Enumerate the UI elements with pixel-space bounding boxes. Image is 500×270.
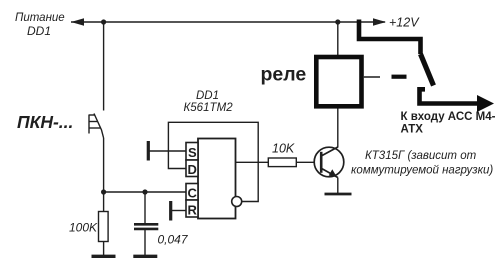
wire 10K to base xyxy=(296,161,314,163)
switch ПКН (push button) xyxy=(89,114,104,139)
svg-text:К561ТМ2: К561ТМ2 xyxy=(184,102,234,114)
pin box S xyxy=(186,143,198,161)
wire node to C input xyxy=(104,191,186,193)
pin box R xyxy=(186,200,198,217)
svg-text:Питание: Питание xyxy=(15,12,65,24)
arrowhead right (+12V) xyxy=(373,18,386,26)
feedback wire loop (Q̄ to D) xyxy=(168,122,258,201)
svg-text:КТ315Г (зависит от: КТ315Г (зависит от xyxy=(365,150,477,162)
ground under capacitor xyxy=(133,255,157,258)
inverter bubble on Q̄ output xyxy=(232,197,242,207)
svg-text:коммутируемой нагрузки): коммутируемой нагрузки) xyxy=(351,165,493,177)
node junction capacitor xyxy=(142,189,147,194)
wire top rail down to relay coil xyxy=(337,22,339,55)
wire collector up to relay xyxy=(337,109,339,148)
thick wire from +12V to contact (hand drawn) xyxy=(359,20,421,55)
svg-text:DD1: DD1 xyxy=(27,24,51,38)
svg-text:АТХ: АТХ xyxy=(401,124,424,136)
pin box D xyxy=(186,160,198,177)
pin box C xyxy=(186,184,198,201)
wire R input xyxy=(172,210,186,212)
wire relay contact common lead xyxy=(364,76,380,78)
node junction left xyxy=(101,189,106,194)
resistor R2 10K xyxy=(268,158,296,167)
IC U1 flip-flop DD1 К561ТМ2 body xyxy=(198,139,236,219)
wire emitter down xyxy=(337,178,339,194)
relay moving contact dash xyxy=(392,75,407,79)
chassis ground at S input xyxy=(147,141,150,161)
node junction top-left xyxy=(101,19,106,24)
wire top horizontal +12V rail xyxy=(71,21,385,23)
wire from switch down to node xyxy=(103,138,105,192)
resistor R1 100K xyxy=(103,192,105,212)
svg-text:C: C xyxy=(188,186,198,201)
svg-text:DD1: DD1 xyxy=(196,90,219,102)
wire S input xyxy=(150,150,187,152)
relay K1 coil box xyxy=(316,57,361,106)
svg-text:реле: реле xyxy=(261,64,307,86)
capacitor C1 0,047 xyxy=(144,192,146,223)
chassis ground at R input xyxy=(169,201,172,221)
svg-text:S: S xyxy=(188,145,197,160)
ground under 100K xyxy=(92,255,116,258)
svg-text:ПКН-...: ПКН-... xyxy=(17,112,73,132)
svg-text:R: R xyxy=(188,203,198,218)
svg-text:10K: 10K xyxy=(272,142,295,156)
transistor Q1 KT315G xyxy=(314,147,344,178)
arrowhead to ACC xyxy=(477,95,494,112)
arrowhead left (to Питание DD1) xyxy=(71,18,84,26)
svg-text:D: D xyxy=(188,162,197,177)
svg-text:0,047: 0,047 xyxy=(158,233,189,247)
relay contact lever (thick diagonal) xyxy=(421,54,434,86)
node junction top-right xyxy=(335,19,340,24)
ground under emitter xyxy=(325,193,352,196)
svg-text:100K: 100K xyxy=(69,221,98,235)
wire from top rail down to switch xyxy=(103,22,105,111)
svg-text:К входу АСС М4-: К входу АСС М4- xyxy=(401,111,496,123)
svg-text:+12V: +12V xyxy=(389,16,420,30)
wire Q output to 10K xyxy=(236,161,269,163)
thick output wire with arrow to ACC xyxy=(420,89,481,103)
